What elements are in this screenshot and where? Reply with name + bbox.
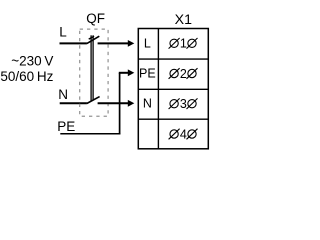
terminal block X1 row line 2 [138, 88, 208, 90]
wire PE horizontal bottom segment [60, 133, 120, 135]
svg-text:PE: PE [139, 67, 156, 81]
svg-text:N: N [143, 97, 152, 111]
svg-text:L: L [144, 37, 151, 51]
arrowhead N [128, 100, 135, 107]
terminal 1 screw symbol left [169, 38, 180, 49]
terminal 4 screw symbol left [169, 129, 180, 140]
terminal 4 screw symbol right [187, 129, 198, 140]
svg-text:3: 3 [180, 97, 187, 111]
svg-text:N: N [58, 87, 68, 102]
wire PE vertical riser [119, 73, 121, 135]
wire L right segment to X1 [98, 42, 129, 44]
breaker QF mechanical linkage line 1 [90, 35, 92, 100]
arrowhead L [128, 40, 135, 47]
terminal 3 screw symbol left [169, 98, 180, 109]
breaker QF pole L contact blade [87, 36, 100, 43]
svg-text:X1: X1 [175, 12, 192, 28]
wire N right segment to X1 [98, 102, 129, 104]
arrowhead PE [128, 69, 135, 76]
svg-text:4: 4 [180, 127, 187, 141]
terminal 2 screw symbol left [169, 68, 180, 79]
svg-text:L: L [59, 25, 67, 40]
breaker QF dashed outline box [80, 29, 108, 116]
terminal 1 screw symbol right [187, 38, 198, 49]
wire PE arrow segment into X1 [119, 72, 129, 74]
breaker QF pole L actuator tick [89, 36, 94, 39]
label source voltage ~230 V 50/60 Hz [0, 54, 53, 84]
terminal 2 screw symbol right [187, 68, 198, 79]
wire N left segment [60, 102, 87, 104]
svg-text:2: 2 [180, 67, 187, 81]
terminal block X1 outer frame [138, 29, 208, 149]
terminal 3 screw symbol right [187, 98, 198, 109]
svg-text:1: 1 [180, 37, 187, 51]
terminal block X1 row line 3 [138, 118, 208, 120]
breaker QF pole N contact blade [87, 97, 100, 104]
svg-text:QF: QF [86, 11, 105, 26]
svg-text:~230 V: ~230 V [11, 54, 53, 69]
terminal block X1 column divider [157, 29, 159, 149]
wire L left segment [60, 42, 87, 44]
svg-text:PE: PE [57, 119, 75, 134]
svg-text:50/60 Hz: 50/60 Hz [0, 69, 53, 84]
breaker QF mechanical linkage line 2 [92, 35, 94, 99]
terminal block X1 row line 1 [138, 58, 208, 60]
